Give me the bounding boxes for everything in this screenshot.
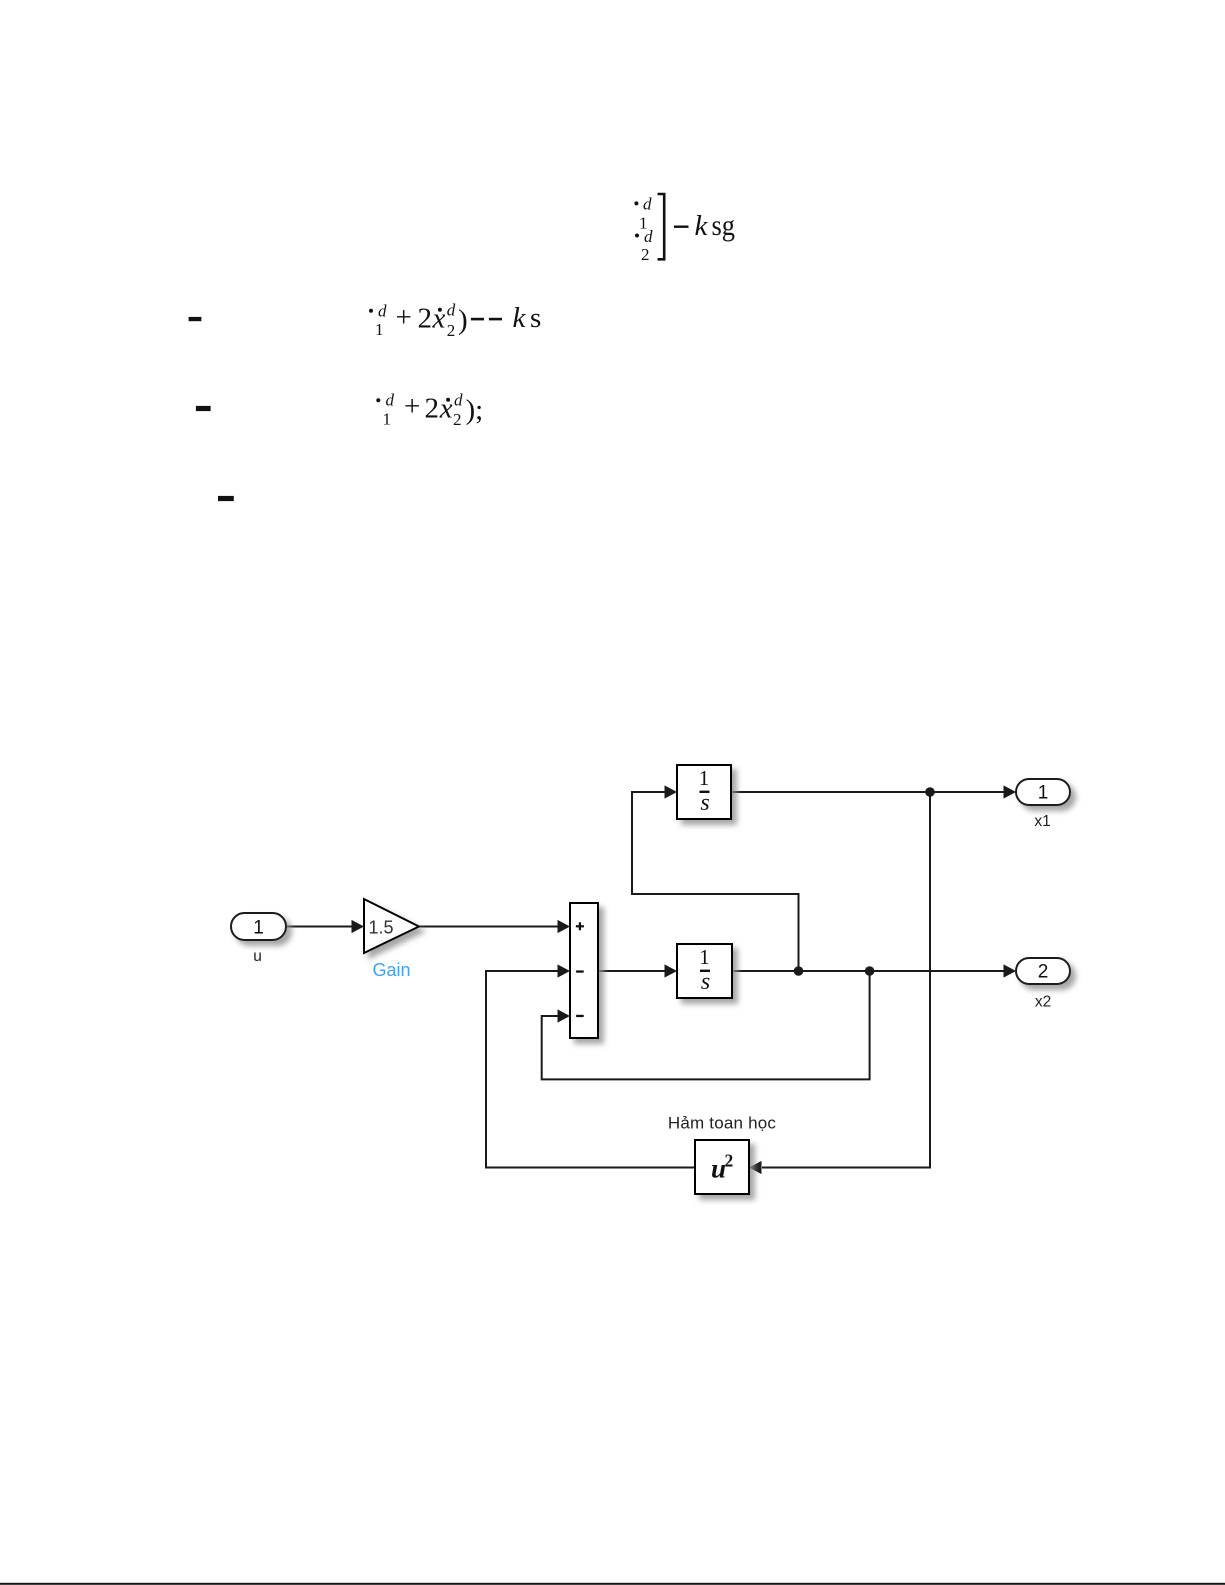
equation 3 fragment: - xdot1^d + 2 xdot2^d ); <box>196 391 483 430</box>
sum block <box>570 903 598 1038</box>
svg-text:d: d <box>378 301 387 320</box>
arrowhead into out1 <box>1004 785 1017 798</box>
svg-text:Hảm toan học: Hảm toan học <box>668 1114 777 1133</box>
integrator block 1 (1/s) <box>677 765 731 819</box>
junction dot on x1 net <box>925 787 935 797</box>
svg-text:k: k <box>513 302 527 334</box>
svg-text:);: ); <box>466 394 484 426</box>
dot over x1d <box>634 201 638 205</box>
svg-text:x: x <box>439 393 453 425</box>
svg-text:sg: sg <box>712 209 736 242</box>
arrowhead into gain <box>352 920 365 933</box>
svg-text:x1: x1 <box>1034 813 1050 830</box>
svg-text:2: 2 <box>425 393 440 425</box>
svg-text:2: 2 <box>447 321 456 340</box>
wire: sum output to integrator2 <box>598 970 665 972</box>
list dash bullet <box>196 406 211 411</box>
minus 2 <box>489 318 502 321</box>
svg-text:Gain: Gain <box>372 960 410 980</box>
wire: gain to sum + input <box>419 926 558 928</box>
svg-text:1.5: 1.5 <box>369 918 394 938</box>
bottom horizontal rule <box>0 1583 1225 1585</box>
right bracket of matrix <box>658 194 665 259</box>
svg-text:d: d <box>643 195 652 214</box>
svg-text:+: + <box>396 302 412 334</box>
equation 1 fragment: [xdot1^d ; xdot2^d ] - k sg <box>634 194 735 264</box>
math function block u^2 <box>695 1140 749 1194</box>
list dash bullet <box>189 317 202 321</box>
svg-text:1: 1 <box>699 945 710 969</box>
svg-text:2: 2 <box>418 303 433 335</box>
svg-text:2: 2 <box>725 1151 734 1171</box>
dot over x1 <box>369 309 373 313</box>
junction dot on x2 net (feedback to integrator1) <box>794 966 804 976</box>
svg-text:d: d <box>447 301 456 320</box>
svg-text:1: 1 <box>375 320 384 339</box>
sum sign + (port 1) <box>576 925 584 927</box>
arrowhead into integrator1 <box>665 785 678 798</box>
junction dot on x2 net (feedback to sum) <box>865 966 875 976</box>
dot over x1 <box>376 398 380 402</box>
svg-text:x2: x2 <box>1035 994 1051 1011</box>
minus sign <box>674 226 689 228</box>
svg-text:1: 1 <box>699 766 710 790</box>
svg-text:d: d <box>454 391 463 410</box>
equation 4 fragment: lone dash <box>218 496 234 501</box>
svg-text:s: s <box>700 790 709 816</box>
in port 1 oval <box>231 913 286 940</box>
wire: integrator1 output to out1 <box>731 791 1004 793</box>
gain triangle (1.5) <box>364 899 419 953</box>
svg-text:s: s <box>701 969 710 995</box>
svg-text:u: u <box>253 948 262 965</box>
svg-text:2: 2 <box>1038 962 1049 983</box>
wire: u^2 output to sum middle input <box>486 971 695 1168</box>
dot over x2d <box>635 234 639 238</box>
arrowhead into sum middle input <box>558 964 571 977</box>
wire: integrator2 output to out2 <box>732 970 1004 972</box>
arrowhead into sum + input <box>558 920 571 933</box>
svg-text:2: 2 <box>453 410 462 429</box>
arrowhead into u^2 (pointing left) <box>749 1161 762 1174</box>
sum sign - (port 2) <box>576 970 584 972</box>
svg-text:s: s <box>530 302 541 334</box>
minus 1 <box>471 318 484 321</box>
svg-text:d: d <box>644 227 653 246</box>
sum sign - (port 3) <box>576 1015 584 1017</box>
svg-text:k: k <box>695 210 709 242</box>
wire: x2 junction down, around to sum bottom input <box>542 971 870 1079</box>
svg-text:1: 1 <box>253 918 264 939</box>
arrowhead into sum bottom input <box>558 1009 571 1022</box>
arrowhead into integrator2 <box>665 964 678 977</box>
svg-text:d: d <box>386 391 395 410</box>
out port 2 oval <box>1016 958 1070 984</box>
arrowhead into out2 <box>1004 964 1017 977</box>
equation 2 fragment: - xdot1^d + 2 xdot2^d ) - - k s <box>189 301 542 340</box>
svg-text:+: + <box>404 391 420 423</box>
wire: x1 net down to u^2 input <box>762 792 930 1168</box>
svg-text:2: 2 <box>641 245 650 264</box>
svg-text:): ) <box>458 304 468 336</box>
svg-text:1: 1 <box>1038 783 1049 804</box>
wire: feedback from x2 net up into integrator1 input <box>632 792 799 971</box>
integrator block 2 (1/s) <box>677 944 732 998</box>
svg-text:x: x <box>432 303 446 335</box>
out port 1 oval <box>1016 779 1070 805</box>
wire: in1 to gain <box>286 926 352 928</box>
svg-text:1: 1 <box>383 409 392 428</box>
